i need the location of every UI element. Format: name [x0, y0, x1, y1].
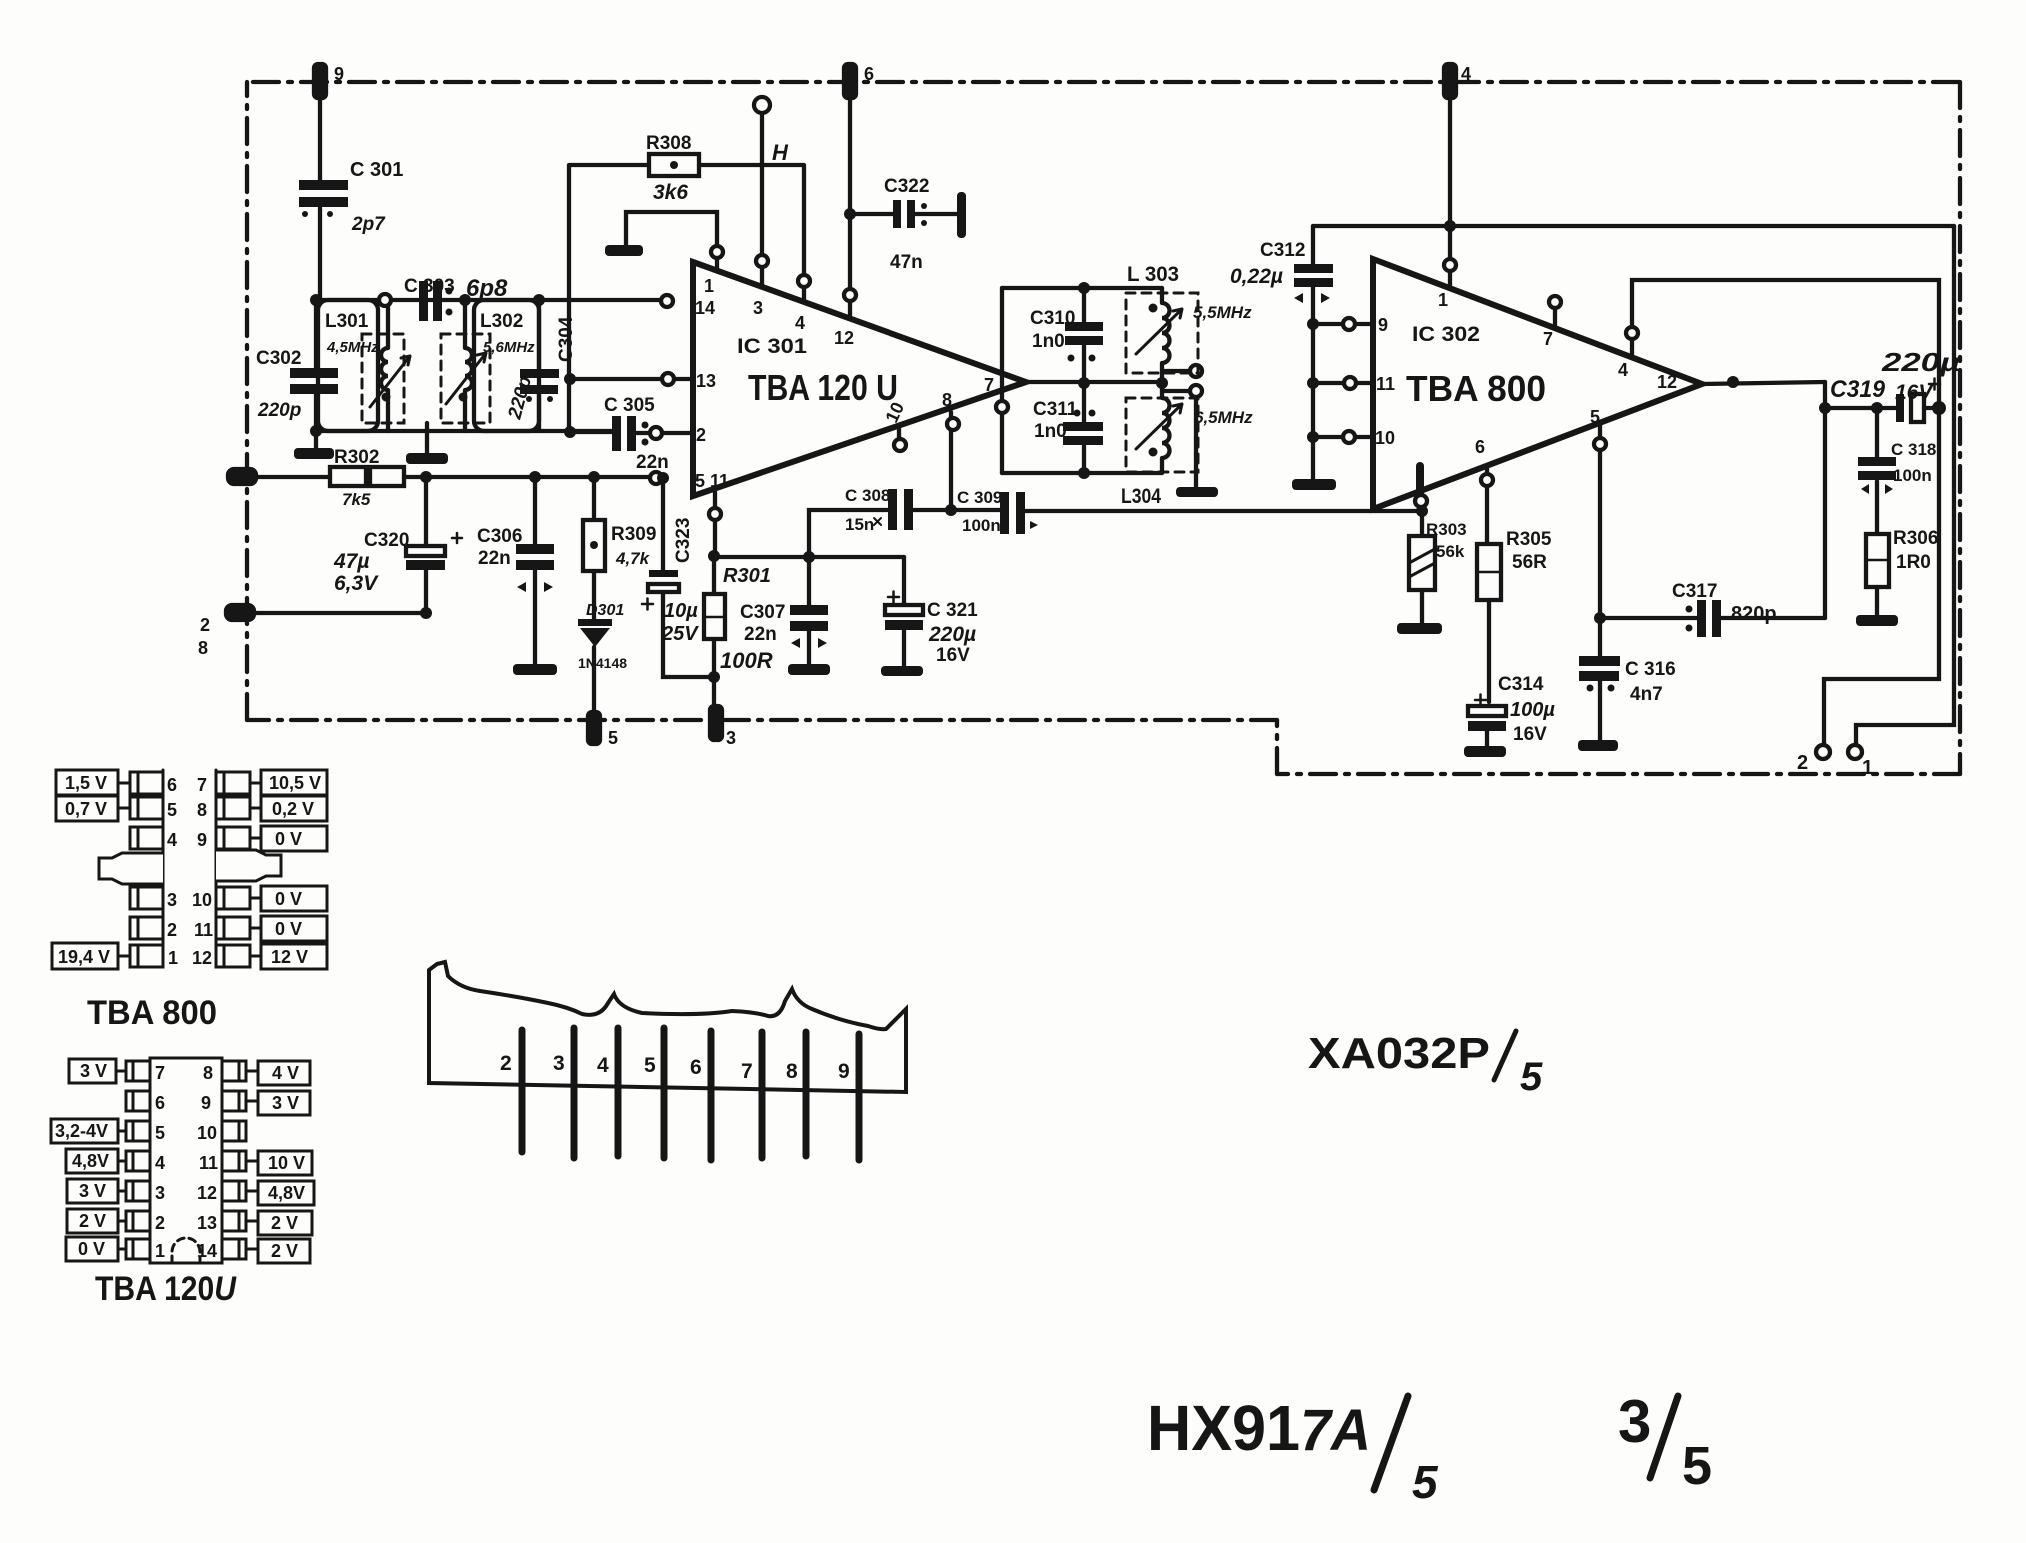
L304 dashed box [1126, 398, 1198, 472]
left pin stubs 7..1 [126, 1061, 150, 1081]
svg-text:5: 5 [644, 1054, 656, 1077]
svg-text:11: 11 [194, 920, 213, 940]
svg-text:5: 5 [695, 471, 705, 491]
svg-text:22n: 22n [744, 624, 777, 645]
node 5 terminal bottom [588, 712, 618, 748]
svg-text:16V: 16V [1513, 724, 1547, 745]
svg-text:R303: R303 [1426, 520, 1467, 539]
svg-text:5: 5 [1412, 1456, 1439, 1508]
svg-text:L304: L304 [1121, 485, 1161, 508]
svg-text:13: 13 [197, 1213, 217, 1233]
svg-text:2: 2 [200, 615, 210, 635]
svg-text:4: 4 [155, 1153, 165, 1173]
svg-text:1: 1 [1438, 290, 1448, 310]
node 6 terminal [844, 64, 874, 98]
svg-text:100n: 100n [1893, 466, 1932, 485]
svg-text:3: 3 [155, 1183, 165, 1203]
svg-text:2 V: 2 V [79, 1211, 106, 1231]
junction node4/rail [1444, 220, 1456, 232]
op-amp IC302 TBA800 [1373, 259, 1702, 509]
voltage label 0V pin9 [250, 826, 327, 851]
pin 6 stub box [130, 772, 163, 794]
svg-text:10µ: 10µ [664, 600, 698, 622]
svg-text:5: 5 [608, 728, 618, 748]
svg-text:R309: R309 [611, 524, 656, 545]
supply rail from C312 to right edge [1313, 224, 1954, 228]
svg-text:TBA 120U: TBA 120U [95, 1270, 237, 1308]
L304 adjust arrow [1136, 404, 1182, 449]
svg-text:L 303: L 303 [1127, 263, 1179, 286]
svg-text:C302: C302 [256, 348, 301, 369]
junction mid rail [1078, 377, 1090, 389]
pin 1 ground loop [626, 212, 723, 272]
sheet number 3/5 [1618, 1388, 1712, 1496]
dash-dot border: step [1275, 720, 1279, 774]
voltage label 3,2-4V pin5 [51, 1119, 126, 1143]
svg-text:5: 5 [1682, 1436, 1712, 1496]
svg-text:9: 9 [201, 1093, 211, 1113]
svg-text:0,7 V: 0,7 V [65, 799, 107, 819]
resistor R301 100R [704, 556, 773, 708]
notch dashed [172, 1238, 200, 1263]
svg-text:12: 12 [192, 948, 212, 968]
TBA800 pin 5 wire [1594, 423, 1606, 618]
pin 8 stub box [216, 797, 250, 819]
coil L301 can [318, 300, 379, 431]
svg-text:7: 7 [741, 1060, 753, 1083]
ground for C321 [881, 666, 923, 676]
svg-text:820p: 820p [1731, 603, 1777, 625]
input terminal node lower [198, 605, 254, 658]
resistor R308 3k6 [646, 133, 699, 204]
svg-text:2: 2 [500, 1052, 512, 1075]
junction pin8 drop [945, 504, 957, 516]
svg-text:10,5 V: 10,5 V [269, 773, 321, 793]
svg-text:C320: C320 [364, 530, 409, 551]
ground for C307 [788, 664, 830, 675]
svg-text:6,3V: 6,3V [334, 572, 379, 595]
voltage label 12V pin12 [250, 944, 327, 969]
right heatsink tab [216, 850, 281, 881]
capacitor C302 220p [256, 300, 338, 431]
TBA800 pinout diagram [52, 770, 327, 1032]
wire R301 node to C321 [714, 555, 904, 559]
svg-text:5: 5 [1520, 1055, 1543, 1099]
pinout center rails [163, 770, 216, 967]
voltage label 0V pin1 [66, 1237, 126, 1261]
capacitor C306 22n [477, 477, 554, 664]
svg-text:3,2-4V: 3,2-4V [55, 1121, 108, 1141]
svg-text:0 V: 0 V [275, 889, 302, 909]
svg-text:14: 14 [197, 1241, 217, 1261]
coil L301 winding [379, 294, 391, 431]
dash-dot border: right edge [1958, 82, 1962, 774]
coil L303 winding [1149, 288, 1170, 383]
electrolytic C320 47u 6.3V [333, 477, 462, 613]
svg-text:56R: 56R [1512, 552, 1547, 573]
wire to C319 [1825, 406, 1896, 410]
svg-text:220µ: 220µ [1881, 347, 1960, 377]
pin 10 stub box [216, 887, 250, 909]
svg-text:TBA 120 U: TBA 120 U [748, 367, 898, 408]
svg-text:10: 10 [1375, 428, 1395, 448]
svg-text:C311: C311 [1033, 399, 1078, 420]
svg-text:2 V: 2 V [271, 1213, 298, 1233]
dash-dot border: left edge [245, 82, 249, 720]
feedback vertical wire [1823, 382, 1827, 618]
svg-text:56k: 56k [1436, 542, 1465, 561]
svg-text:C312: C312 [1260, 240, 1305, 261]
svg-text:13: 13 [696, 371, 716, 391]
svg-text:R305: R305 [1506, 529, 1552, 550]
svg-text:1n0: 1n0 [1034, 421, 1067, 442]
resistor R302 7k5 on input wire [330, 447, 404, 509]
voltage label 4V pin8 [246, 1061, 310, 1085]
TBA120U pinout diagram [51, 1058, 314, 1308]
svg-text:C307: C307 [740, 602, 785, 623]
svg-text:R302: R302 [334, 447, 379, 468]
capacitor C304 220p [504, 300, 577, 431]
svg-text:9: 9 [197, 830, 207, 850]
svg-text:8: 8 [203, 1063, 213, 1083]
wire to bottom terminal 1 [1856, 226, 1954, 745]
svg-text:0,22µ: 0,22µ [1230, 265, 1283, 288]
module pin 4 [597, 1028, 618, 1156]
svg-text:7: 7 [984, 375, 994, 395]
capacitor C303 6p8 [404, 275, 508, 321]
svg-text:TBA 800: TBA 800 [87, 994, 217, 1032]
diode D301 1N4148 [578, 602, 627, 712]
L303 adjust arrow [1136, 309, 1182, 354]
svg-text:3k6: 3k6 [653, 181, 688, 204]
svg-text:4: 4 [167, 830, 177, 850]
svg-text:C322: C322 [884, 176, 929, 197]
ground for C314 [1464, 746, 1506, 757]
svg-text:5: 5 [167, 800, 177, 820]
IC body [150, 1058, 222, 1263]
svg-text:12: 12 [197, 1183, 217, 1203]
pin 7 stub box [216, 772, 250, 794]
pin 5 stub box [130, 797, 163, 819]
svg-text:L301: L301 [325, 311, 369, 332]
pin 5/11 circle [650, 472, 662, 484]
voltage label 10V pin11 [246, 1151, 312, 1175]
svg-text:4n7: 4n7 [1630, 684, 1663, 705]
coil L304 winding [1149, 383, 1170, 473]
pin 12 stub box [216, 945, 250, 967]
voltage label 4,8V pin12 [246, 1181, 314, 1205]
svg-text:4: 4 [795, 313, 805, 333]
electrolytic C323 10u 25V [642, 478, 714, 677]
svg-text:3: 3 [167, 890, 177, 910]
L303 tank top rail [1002, 286, 1162, 290]
wire to bottom terminal 2 [1824, 408, 1939, 745]
junction pin8/R303 [1416, 505, 1428, 517]
svg-text:6: 6 [155, 1093, 165, 1113]
ground for L304 tap [1176, 487, 1218, 497]
svg-text:C 305: C 305 [604, 395, 655, 416]
junction C304 top [533, 294, 545, 306]
svg-text:100R: 100R [720, 648, 773, 673]
svg-text:R306: R306 [1893, 528, 1938, 549]
capacitor C311 1n0 [1033, 383, 1103, 473]
L303 tap stub [1162, 365, 1202, 377]
pin 1 circle [1444, 259, 1456, 271]
svg-text:7: 7 [1543, 329, 1553, 349]
L303 tank left rail [996, 288, 1008, 473]
pin 2 circle [650, 427, 662, 439]
svg-text:3: 3 [553, 1052, 565, 1075]
svg-text:4: 4 [1618, 360, 1628, 380]
svg-text:12 V: 12 V [271, 947, 308, 967]
svg-text:1: 1 [155, 1241, 165, 1261]
module pin 7 [741, 1032, 762, 1158]
svg-text:1: 1 [168, 948, 178, 968]
L303 tank bottom rail [1002, 471, 1162, 475]
svg-text:C310: C310 [1030, 308, 1075, 329]
svg-text:C306: C306 [477, 526, 522, 547]
ground for C306 [513, 664, 557, 675]
svg-text:12: 12 [834, 328, 854, 348]
ground for C302 [294, 431, 334, 459]
svg-text:XA032P: XA032P [1308, 1029, 1490, 1078]
svg-text:22n: 22n [478, 548, 511, 569]
svg-text:10: 10 [192, 890, 212, 910]
L302 trimmer dashed box [441, 334, 490, 423]
voltage label 3V pin7 [69, 1059, 126, 1083]
coil L302 winding [459, 294, 473, 431]
svg-text:R308: R308 [646, 133, 691, 154]
junction C302 bottom rail [310, 425, 322, 437]
svg-text:14: 14 [695, 298, 715, 318]
junction pin5/C316/C317 [1594, 612, 1606, 624]
bottom terminal 1 [1848, 745, 1873, 779]
svg-text:1,5 V: 1,5 V [65, 773, 107, 793]
svg-text:16V: 16V [936, 645, 970, 666]
pin 11 stub circle below triangle [709, 492, 721, 556]
wire apex to L303 tank mid rail [1026, 380, 1162, 384]
pin 2 stub box [130, 917, 163, 939]
svg-text:5,5MHz: 5,5MHz [1193, 303, 1252, 322]
dash-dot border: bottom-left edge [247, 718, 1277, 722]
svg-text:4,5MHz: 4,5MHz [326, 339, 379, 356]
voltage label 3V pin9 [246, 1091, 310, 1115]
svg-text:9: 9 [838, 1060, 850, 1083]
svg-text:C317: C317 [1672, 581, 1717, 602]
common ground of L301/L302 trimmers [406, 423, 448, 464]
svg-text:C 308: C 308 [845, 486, 890, 505]
junction output to C319 [1819, 402, 1831, 414]
svg-text:4,7k: 4,7k [615, 549, 651, 568]
svg-text:2p7: 2p7 [351, 214, 386, 235]
module pin 2 [500, 1030, 522, 1152]
svg-text:H: H [772, 140, 789, 165]
junction R301 top [708, 550, 720, 562]
capacitor C301 2p7 [299, 159, 403, 235]
junction C310 top [1078, 282, 1090, 294]
svg-text:6: 6 [864, 64, 874, 84]
dash-dot border: top edge [253, 80, 1960, 84]
terminal H [754, 97, 789, 165]
svg-text:C 316: C 316 [1625, 659, 1676, 680]
junction C319 out node [1932, 401, 1946, 415]
electrolytic C321 220u 16V [885, 557, 978, 666]
right pin stubs 8..14 [222, 1061, 246, 1081]
pin 1 stub box [130, 945, 163, 967]
wire R308 right leg to pin 4 [699, 165, 804, 300]
svg-text:C314: C314 [1498, 674, 1544, 695]
pin 4 wire loop to output cap [1626, 280, 1939, 402]
svg-text:IC 301: IC 301 [737, 335, 807, 358]
svg-text:19,4 V: 19,4 V [58, 947, 110, 967]
svg-text:2: 2 [167, 920, 177, 940]
resistor R306 1R0 [1866, 528, 1938, 615]
dash-dot border: bottom-right edge [1277, 772, 1960, 776]
pin 3 circle [756, 255, 768, 267]
pin 13 circle [662, 373, 674, 385]
ground for C312 rail [1292, 479, 1336, 490]
junction C307/C308 node [803, 551, 815, 563]
svg-text:3: 3 [1618, 1388, 1651, 1455]
op-amp IC301 TBA120U [693, 262, 1026, 496]
module pin 8 [786, 1032, 806, 1156]
pin 12 circle [844, 289, 856, 301]
capacitor C307 22n [740, 557, 828, 664]
L303 dashed box [1126, 293, 1198, 373]
node 4 terminal [1444, 64, 1471, 98]
wire node9 to C301 [318, 98, 322, 180]
pin 14 circle [661, 295, 673, 307]
svg-text:7k5: 7k5 [342, 490, 371, 509]
svg-text:IC 302: IC 302 [1412, 323, 1480, 346]
svg-text:9: 9 [1378, 315, 1388, 335]
resistor R303 56k [1409, 511, 1467, 623]
ground for pin 1 [605, 245, 643, 256]
voltage label 0,2V pin8 [250, 796, 327, 821]
svg-text:3: 3 [753, 298, 763, 318]
left heatsink tab [99, 853, 163, 884]
bottom rail wire (tuned circuits to C305) [316, 429, 612, 433]
junction at output [1727, 376, 1739, 388]
svg-text:C 321: C 321 [927, 600, 978, 621]
svg-text:C304: C304 [556, 316, 577, 362]
resistor R309 4.7k [583, 477, 656, 619]
svg-text:11: 11 [199, 1153, 218, 1173]
svg-text:0 V: 0 V [275, 829, 302, 849]
voltage label 19,4V pin1 [52, 943, 130, 969]
voltage label 2V pin13 [246, 1211, 312, 1235]
voltage label 2V pin2 [67, 1209, 126, 1233]
svg-text:C 309: C 309 [957, 488, 1002, 507]
ground for R303 [1397, 623, 1442, 634]
input terminal node upper [228, 469, 256, 484]
svg-text:100n: 100n [962, 516, 1001, 535]
svg-text:3 V: 3 V [272, 1093, 299, 1113]
coil L302 can [474, 300, 539, 431]
voltage label 0V pin10 [250, 886, 327, 911]
pin 11 stub box [216, 917, 250, 939]
lower input wire [240, 611, 426, 615]
junction C320 bottom / lower input wire [420, 607, 432, 619]
svg-text:3 V: 3 V [79, 1181, 106, 1201]
electrolytic C314 100u 16V [1468, 674, 1555, 746]
junction C306 top [529, 471, 541, 483]
svg-text:10: 10 [197, 1123, 217, 1143]
svg-text:3 V: 3 V [80, 1061, 107, 1081]
svg-text:C 301: C 301 [350, 159, 403, 181]
capacitor C322 47n [850, 176, 957, 273]
TBA120U pin 10 stub [894, 428, 906, 451]
svg-text:2 V: 2 V [271, 1241, 298, 1261]
wire TBA800 pin 11 [1307, 377, 1373, 389]
output wire pin 12 [1702, 382, 1825, 384]
svg-text:C 318: C 318 [1891, 440, 1936, 459]
svg-text:1: 1 [704, 276, 714, 296]
svg-text:4 V: 4 V [272, 1063, 299, 1083]
capacitor C317 820p [1600, 581, 1825, 637]
svg-text:4,8V: 4,8V [72, 1151, 109, 1171]
svg-text:L302: L302 [480, 311, 523, 332]
svg-text:100µ: 100µ [1510, 699, 1555, 721]
svg-text:C319: C319 [1830, 376, 1886, 403]
resistor R305 56R [1477, 466, 1552, 702]
voltage label 1,5V pin6 [56, 770, 130, 795]
svg-text:22n: 22n [636, 452, 669, 473]
svg-text:8: 8 [198, 638, 208, 658]
wire C308 to C309 [913, 508, 1000, 512]
svg-text:1: 1 [1862, 757, 1873, 779]
pin 7 stub [1549, 296, 1561, 328]
svg-text:7: 7 [155, 1063, 165, 1083]
node 3 terminal bottom [710, 706, 736, 748]
capacitor C312 0.22u [1230, 226, 1333, 479]
svg-text:D301: D301 [586, 602, 624, 619]
svg-text:6: 6 [167, 775, 177, 795]
electrolytic C319 [1830, 376, 1940, 422]
svg-text:15n: 15n [845, 515, 874, 534]
svg-text:4: 4 [1461, 64, 1471, 84]
output electrolytic value 220u 16V [1881, 347, 1960, 404]
svg-text:0 V: 0 V [275, 919, 302, 939]
main input wire pin 5/11 rail [250, 475, 650, 479]
wire H to pin 3 [760, 113, 764, 287]
voltage label 2V pin14 [246, 1239, 310, 1263]
junction at C302 top [310, 294, 322, 306]
wire pin 13 [570, 377, 693, 381]
bottom terminal 2 [1797, 745, 1830, 774]
capacitor C318 100n [1858, 408, 1936, 534]
TBA800 pin 8 stub [1415, 466, 1427, 507]
module pin 3 [553, 1028, 574, 1158]
svg-text:25V: 25V [661, 623, 699, 645]
pin 4 circle [798, 275, 810, 287]
svg-text:HX917A: HX917A [1147, 1392, 1371, 1464]
wire C301 to top rail [318, 207, 322, 300]
svg-text:11: 11 [710, 471, 729, 491]
svg-text:8: 8 [942, 390, 952, 410]
svg-text:8: 8 [197, 800, 207, 820]
svg-text:R301: R301 [723, 565, 771, 587]
svg-text:4,8V: 4,8V [268, 1183, 305, 1203]
wire TBA800 pin 9 [1307, 318, 1373, 330]
TBA120U pin 8 stub wire [947, 412, 959, 504]
svg-text:6: 6 [690, 1056, 702, 1079]
svg-text:10 V: 10 V [268, 1153, 305, 1173]
svg-text:5,6MHz: 5,6MHz [483, 339, 535, 356]
module board outline [429, 962, 906, 1092]
pin 9 stub box [216, 827, 250, 849]
ground for C316 [1578, 740, 1618, 751]
